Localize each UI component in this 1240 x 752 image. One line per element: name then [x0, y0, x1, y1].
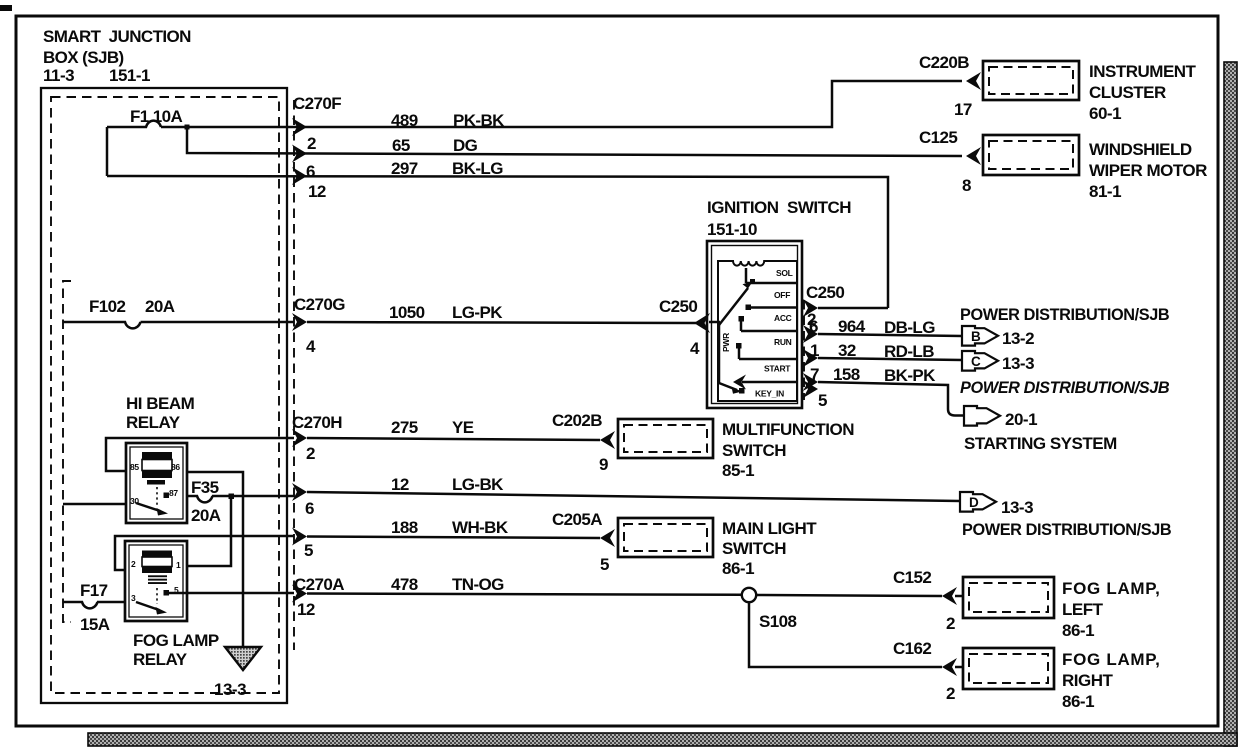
svg-text:C125: C125 — [919, 128, 957, 147]
svg-text:HI BEAM: HI BEAM — [126, 394, 195, 413]
svg-text:158: 158 — [833, 365, 860, 384]
svg-text:C152: C152 — [893, 568, 931, 587]
svg-text:13-3: 13-3 — [1002, 354, 1034, 373]
svg-text:DB-LG: DB-LG — [884, 318, 935, 337]
svg-text:81-1: 81-1 — [1089, 182, 1121, 201]
main light switch box — [618, 518, 713, 557]
ignition switch PWR feed entry — [709, 322, 720, 383]
svg-text:C162: C162 — [893, 639, 931, 658]
svg-text:BK-PK: BK-PK — [884, 366, 936, 385]
svg-text:LEFT: LEFT — [1062, 600, 1104, 619]
svg-text:STARTING SYSTEM: STARTING SYSTEM — [964, 434, 1117, 453]
connector C270A arrow pin 12 — [292, 585, 307, 603]
svg-text:85-1: 85-1 — [722, 461, 754, 480]
svg-text:SMART JUNCTION: SMART JUNCTION — [43, 27, 191, 46]
svg-text:5: 5 — [304, 541, 313, 560]
connector C270 arrow pin 5 — [292, 528, 307, 546]
fuse F1 10A (bump on wire 489) — [107, 121, 161, 127]
svg-text:OFF: OFF — [774, 290, 790, 300]
svg-text:C202B: C202B — [552, 411, 602, 430]
terminal row START to C250 pin 7 with arrow — [742, 381, 797, 384]
relay contact arm — [136, 503, 160, 511]
wire splice branch to C162 — [749, 602, 942, 667]
svg-text:86-1: 86-1 — [722, 559, 754, 578]
connector C220B arrow — [966, 72, 981, 90]
svg-text:C250: C250 — [659, 297, 697, 316]
svg-text:BK-LG: BK-LG — [452, 159, 503, 178]
wire 478 TN-OG from fog relay to fog lamps — [168, 593, 742, 595]
relay 87 terminal — [164, 493, 170, 499]
svg-text:489: 489 — [391, 111, 418, 130]
relay contact arm — [136, 602, 159, 610]
C250 arrow pin 1 — [803, 349, 818, 367]
svg-text:188: 188 — [391, 518, 418, 537]
svg-text:C270H: C270H — [292, 413, 342, 432]
svg-text:C270G: C270G — [294, 295, 345, 314]
svg-text:4: 4 — [306, 337, 316, 356]
svg-text:12: 12 — [297, 600, 315, 619]
svg-text:C270F: C270F — [293, 94, 341, 113]
svg-text:FOG LAMP: FOG LAMP — [133, 631, 219, 650]
wire from F35 junction down to fog relay coil — [187, 496, 231, 566]
svg-text:2: 2 — [306, 444, 315, 463]
svg-text:POWER DISTRIBUTION/SJB: POWER DISTRIBUTION/SJB — [960, 306, 1170, 324]
connector C270F arrow pin 12 — [292, 167, 307, 185]
svg-text:F17: F17 — [80, 581, 108, 600]
svg-text:20-1: 20-1 — [1005, 410, 1037, 429]
wire to relay 30 from bus — [63, 503, 126, 506]
svg-text:2: 2 — [131, 559, 136, 569]
svg-text:87: 87 — [169, 488, 178, 498]
svg-text:20A: 20A — [191, 506, 221, 525]
fog lamp relay coil — [142, 551, 172, 558]
svg-text:275: 275 — [391, 418, 418, 437]
svg-text:32: 32 — [838, 341, 856, 360]
svg-text:SOL: SOL — [776, 268, 793, 278]
svg-text:6: 6 — [809, 317, 818, 336]
wire 489 PK-BK from F1 via C270F pin 2 up to C220B — [161, 81, 962, 127]
position SOL shelf line — [746, 268, 797, 283]
svg-text:MAIN LIGHT: MAIN LIGHT — [722, 519, 817, 538]
svg-text:85: 85 — [130, 462, 139, 472]
connector C125 arrow — [966, 147, 981, 165]
svg-text:151-10: 151-10 — [707, 220, 757, 239]
svg-text:DG: DG — [453, 136, 478, 155]
hi beam relay coil — [142, 452, 172, 460]
svg-text:SWITCH: SWITCH — [722, 539, 786, 558]
wire 12 LG-BK to power distribution D — [307, 492, 960, 501]
connector C270G arrow pin 4 — [292, 313, 307, 331]
instrument cluster box — [983, 61, 1079, 100]
connector D pentagon — [960, 492, 996, 512]
page shadow right edge — [1224, 62, 1237, 746]
relay actuation dotted link — [156, 487, 158, 506]
svg-text:12: 12 — [308, 182, 326, 201]
svg-text:5: 5 — [818, 391, 827, 410]
connector C152 arrow — [942, 587, 957, 605]
svg-text:LG-BK: LG-BK — [452, 475, 504, 494]
svg-text:WIPER MOTOR: WIPER MOTOR — [1089, 161, 1207, 180]
svg-text:D: D — [969, 495, 979, 510]
svg-text:86-1: 86-1 — [1062, 692, 1094, 711]
svg-text:12: 12 — [391, 475, 409, 494]
svg-text:478: 478 — [391, 575, 418, 594]
svg-text:65: 65 — [392, 136, 410, 155]
svg-text:WINDSHIELD: WINDSHIELD — [1089, 140, 1192, 159]
connector C270 dashed mating face line — [293, 100, 295, 650]
svg-text:BOX (SJB): BOX (SJB) — [43, 48, 124, 67]
svg-text:SWITCH: SWITCH — [722, 441, 786, 460]
SJB inner dashed outline — [51, 97, 279, 693]
svg-text:S108: S108 — [759, 612, 796, 631]
svg-text:3: 3 — [131, 593, 136, 603]
relay 5 terminal — [164, 590, 170, 596]
smart junction box SJB solid outline — [41, 88, 287, 703]
fuse F102 20A (bump on 1050 wire) — [63, 322, 141, 328]
wire 297 BK-LG from C270F pin 12 to ignition switch feed — [107, 176, 888, 308]
svg-text:9: 9 — [599, 455, 608, 474]
svg-text:CLUSTER: CLUSTER — [1089, 83, 1166, 102]
connector B pentagon — [962, 326, 998, 346]
svg-text:F102: F102 — [89, 297, 125, 316]
svg-text:C250: C250 — [806, 283, 844, 302]
svg-text:964: 964 — [838, 317, 866, 336]
svg-text:13-2: 13-2 — [1002, 329, 1034, 348]
svg-text:C205A: C205A — [552, 510, 602, 529]
connector C202B arrow — [600, 431, 615, 449]
connector C270H arrow pin 2 — [292, 429, 307, 447]
svg-text:86-1: 86-1 — [1062, 621, 1094, 640]
svg-text:POWER DISTRIBUTION/SJB: POWER DISTRIBUTION/SJB — [960, 379, 1170, 397]
svg-text:60-1: 60-1 — [1089, 104, 1121, 123]
svg-text:6: 6 — [305, 499, 314, 518]
connector C pentagon — [962, 351, 998, 371]
svg-text:7: 7 — [810, 365, 819, 384]
svg-text:20A: 20A — [145, 297, 175, 316]
svg-text:1: 1 — [176, 560, 181, 570]
svg-text:KEY_IN: KEY_IN — [755, 389, 784, 399]
connector C270F arrow pin 2 — [292, 118, 307, 136]
svg-text:151-1: 151-1 — [109, 66, 150, 85]
fuse F35 20A on relay 87 output — [187, 496, 294, 502]
svg-text:RIGHT: RIGHT — [1062, 671, 1114, 690]
svg-text:11-3: 11-3 — [43, 66, 74, 85]
connector C270F arrow pin 6 — [292, 145, 307, 163]
fog lamp left box — [963, 577, 1054, 618]
svg-text:F1 10A: F1 10A — [130, 107, 182, 126]
wire relay 86 to ground riser — [187, 472, 243, 647]
windshield wiper motor box — [983, 135, 1079, 175]
svg-text:LG-PK: LG-PK — [452, 303, 503, 322]
svg-text:8: 8 — [962, 176, 971, 195]
svg-text:FOG LAMP,: FOG LAMP, — [1062, 650, 1161, 669]
C250 arrow pin 6 — [803, 325, 818, 343]
svg-text:INSTRUMENT: INSTRUMENT — [1089, 62, 1197, 81]
terminal row ACC to C250 pin 6 — [741, 321, 797, 331]
svg-text:15A: 15A — [80, 615, 110, 634]
svg-text:RUN: RUN — [774, 337, 792, 347]
scan speck top-left — [0, 5, 12, 11]
ignition switch U1 outer double box — [707, 241, 802, 408]
connector C270 arrow pin 6 (12 LG-BK) — [292, 483, 307, 501]
wire 275 YE from relay coil to C202B — [106, 438, 600, 471]
relay actuation dotted link — [156, 588, 158, 604]
connector C162 arrow — [942, 658, 957, 676]
svg-text:START: START — [764, 364, 791, 374]
hi beam relay K1 box — [126, 443, 187, 523]
svg-text:1050: 1050 — [389, 303, 425, 322]
svg-text:C: C — [971, 354, 981, 369]
SJB internal dashed bus bracket — [63, 281, 71, 622]
svg-text:TN-OG: TN-OG — [452, 575, 504, 594]
svg-text:2: 2 — [307, 134, 316, 153]
svg-text:297: 297 — [391, 159, 418, 178]
svg-text:2: 2 — [946, 614, 955, 633]
terminal row RUN to C250 pin 1 — [739, 348, 797, 359]
ignition KEY_IN wiper — [719, 383, 737, 390]
wire 188 WH-BK from main light switch to fog relay coil — [115, 536, 600, 570]
svg-text:13-3: 13-3 — [214, 680, 246, 699]
multifunction switch box — [618, 419, 713, 458]
svg-text:RELAY: RELAY — [126, 413, 181, 432]
svg-text:4: 4 — [690, 339, 700, 358]
C250 arrow pin 5 key-in — [803, 380, 818, 398]
svg-text:ACC: ACC — [774, 313, 792, 323]
fog lamp relay K2 box — [125, 541, 187, 621]
connector C250 right dashed face — [803, 300, 805, 400]
wire from SOL row to 297 BK-LG riser — [818, 307, 888, 310]
junction at F1 output branch — [185, 125, 190, 130]
ignition switch inner body box — [718, 261, 797, 401]
connector C205A arrow — [600, 529, 615, 547]
page shadow bottom edge — [88, 733, 1237, 746]
svg-text:1: 1 — [810, 341, 819, 360]
terminal row to C250 pin 2 — [749, 306, 797, 309]
wire 1050 LG-PK from F102 to ignition switch C250 — [141, 322, 697, 323]
svg-text:MULTIFUNCTION: MULTIFUNCTION — [722, 420, 854, 439]
wire 964 DB-LG — [818, 334, 962, 336]
svg-text:17: 17 — [954, 100, 972, 119]
wire stub F1 input down to 297 wire — [106, 127, 109, 176]
C250 arrow pin 2 — [803, 299, 818, 317]
ignition rotary wiper arm — [719, 288, 748, 325]
fog lamp right box — [963, 648, 1054, 689]
wire 158 BK-PK to starting system — [818, 382, 964, 416]
connector C250 left arrow pin 4 — [694, 313, 710, 333]
fuse F17 15A — [63, 602, 125, 608]
svg-text:C220B: C220B — [919, 53, 969, 72]
svg-text:IGNITION SWITCH: IGNITION SWITCH — [707, 198, 851, 217]
wire 65 DG branch from 489 at x187 — [187, 127, 962, 156]
svg-text:POWER DISTRIBUTION/SJB: POWER DISTRIBUTION/SJB — [962, 521, 1172, 539]
svg-text:WH-BK: WH-BK — [452, 518, 509, 537]
svg-text:RELAY: RELAY — [133, 650, 188, 669]
svg-text:YE: YE — [452, 418, 474, 437]
connector pentagon 20-1 — [964, 406, 1000, 426]
svg-text:B: B — [971, 329, 981, 344]
junction S at F35 output — [229, 494, 235, 500]
svg-text:PK-BK: PK-BK — [453, 111, 505, 130]
svg-text:PWR: PWR — [721, 333, 731, 352]
ground G1 triangle — [225, 647, 261, 670]
svg-text:2: 2 — [946, 684, 955, 703]
svg-text:6: 6 — [306, 162, 315, 181]
svg-text:86: 86 — [171, 462, 180, 472]
svg-text:13-3: 13-3 — [1001, 498, 1033, 517]
C250 arrow pin 7 — [803, 373, 818, 391]
svg-text:RD-LB: RD-LB — [884, 342, 934, 361]
svg-text:5: 5 — [600, 555, 609, 574]
wire 32 RD-LB — [818, 358, 962, 360]
svg-text:FOG LAMP,: FOG LAMP, — [1062, 579, 1161, 598]
splice S108 — [742, 588, 756, 602]
wire splice to C152 — [756, 595, 942, 596]
svg-text:F35: F35 — [191, 478, 219, 497]
